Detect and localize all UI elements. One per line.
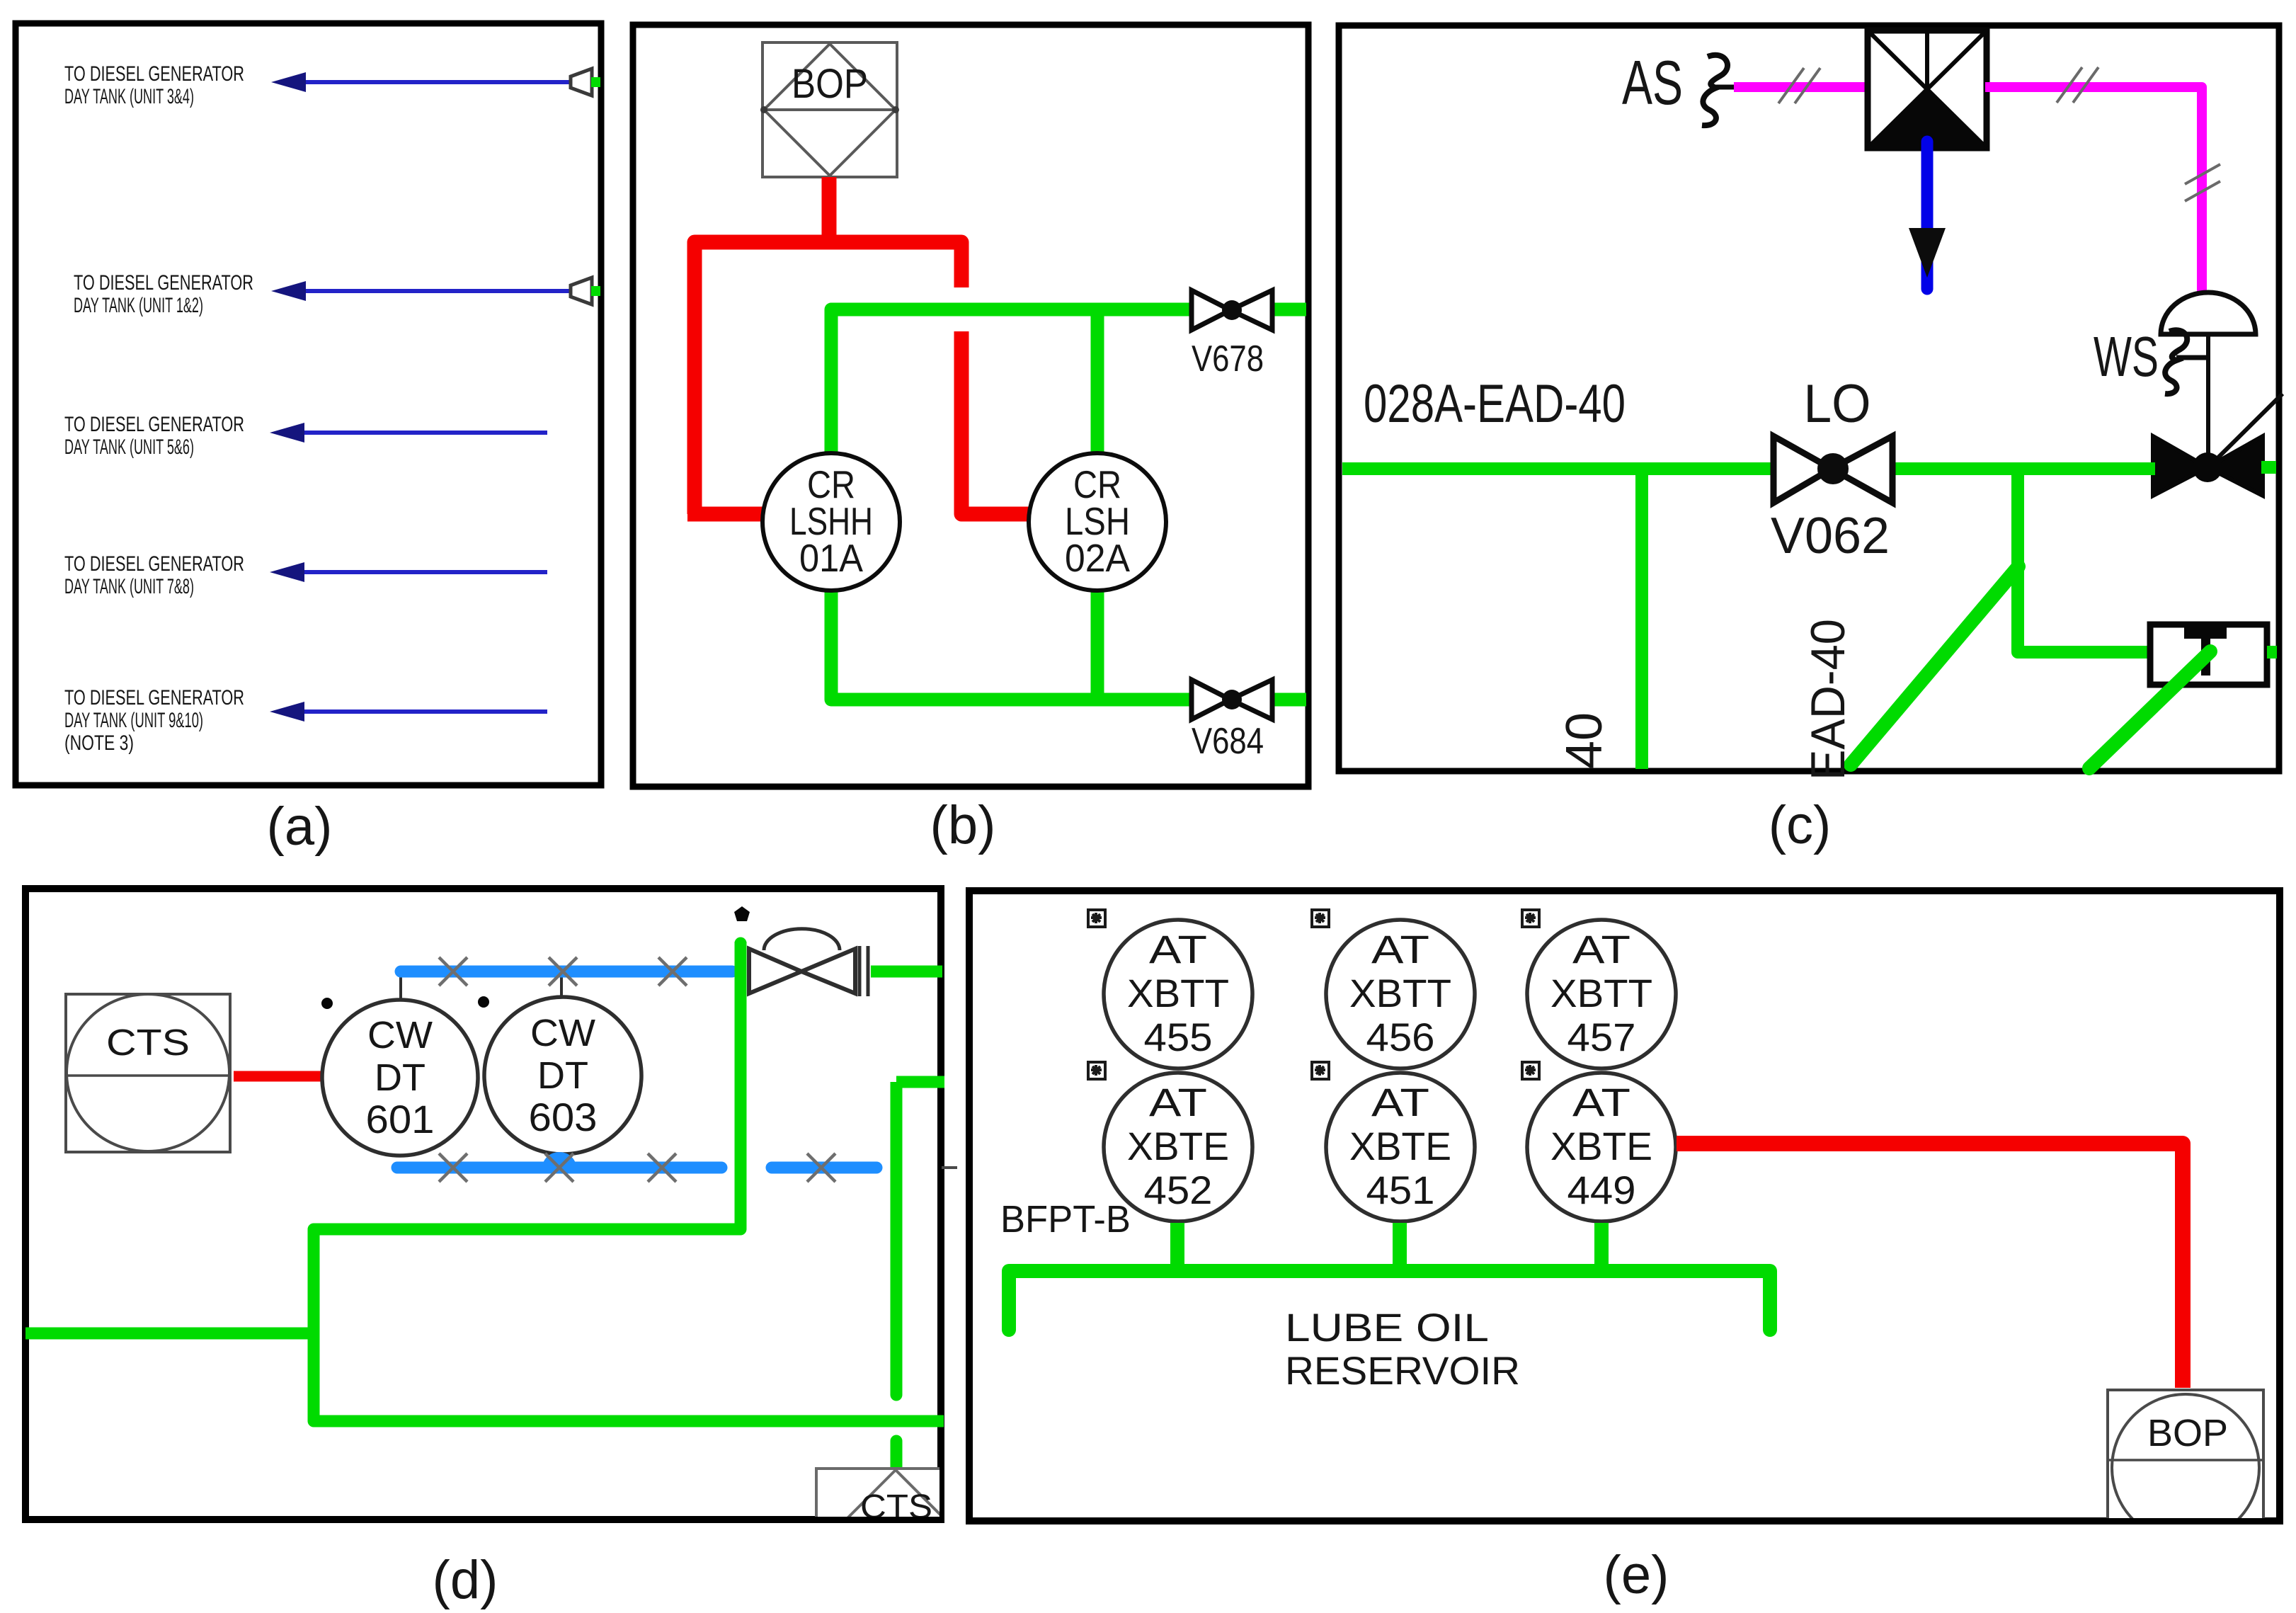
green diagonal line EAD-40 — [1851, 566, 2018, 765]
small CTS interface box (clipped at border) — [816, 1469, 975, 1613]
green process line between V062 and control valve — [1892, 462, 2155, 475]
pipe arrow to day tank unit 5&6 — [270, 423, 547, 443]
svg-text:XBTE: XBTE — [1127, 1124, 1229, 1168]
red signal wire to CR LSH 02A — [961, 331, 1035, 514]
star marker for AT XBTT 455 — [1088, 910, 1105, 927]
label: TO DIESEL GENERATOR DAY TANK (UNIT 1&2) — [74, 271, 253, 317]
dot marker near CW DT 601 — [321, 998, 333, 1009]
instrument AT XBTE 452 — [1104, 1073, 1252, 1221]
instrument CW DT 601 — [322, 1000, 478, 1156]
magenta pneumatic line AS to 3-way valve — [1734, 82, 1869, 92]
svg-text:AS: AS — [1622, 47, 1683, 118]
closed valve X marks on top header — [439, 957, 687, 986]
valve V678 — [1192, 290, 1272, 380]
instrument box with T — [2150, 625, 2267, 685]
svg-text:456: 456 — [1366, 1015, 1435, 1059]
instrument AT XBTT 457 — [1527, 920, 1676, 1068]
svg-text:DAY TANK (UNIT 3&4): DAY TANK (UNIT 3&4) — [64, 85, 194, 108]
svg-text:XBTE: XBTE — [1550, 1124, 1652, 1168]
svg-text:02A: 02A — [1065, 536, 1130, 580]
thin tap connector 601 to blue header — [399, 971, 402, 1001]
green stub from XBTE 451 — [1393, 1223, 1407, 1271]
green stub from XBTE 449 — [1594, 1223, 1609, 1271]
svg-text:BFPT-B: BFPT-B — [1000, 1198, 1131, 1241]
pipe arrow to day tank unit 9&10 — [270, 702, 547, 722]
control valve with bonnet (top right) — [749, 929, 868, 996]
red signal wire CTS to CW DT 601 — [234, 1071, 322, 1082]
svg-text:V678: V678 — [1192, 338, 1264, 380]
red signal wire to CR LSHH 01A — [695, 242, 961, 514]
svg-text:DAY TANK (UNIT 1&2): DAY TANK (UNIT 1&2) — [74, 294, 203, 317]
panel (b) border frame — [633, 25, 1308, 787]
green valve outlet to border — [871, 966, 942, 978]
svg-text:(c): (c) — [1769, 795, 1832, 855]
panel (c) border frame — [1339, 25, 2279, 771]
panel (a) border frame — [16, 23, 601, 785]
svg-text:451: 451 — [1366, 1168, 1435, 1212]
thin stub at border right of blue segment — [942, 1166, 957, 1169]
green stub to small CTS box — [891, 1441, 903, 1476]
blue line separate segment — [772, 1162, 876, 1174]
blue line bottom header — [397, 1162, 721, 1174]
label: TO DIESEL GENERATOR DAY TANK (UNIT 3&4) — [64, 62, 244, 108]
WS short tick — [2176, 355, 2208, 360]
svg-text:TO DIESEL GENERATOR: TO DIESEL GENERATOR — [64, 62, 244, 86]
pipe arrow to day tank unit 1&2 — [271, 281, 571, 301]
svg-text:DAY TANK (UNIT 7&8): DAY TANK (UNIT 7&8) — [64, 575, 194, 598]
green branch drop line — [1635, 469, 1648, 769]
closed valve X marks on bottom header — [439, 1153, 676, 1182]
svg-text:(d): (d) — [433, 1550, 498, 1610]
svg-text:603: 603 — [529, 1095, 598, 1139]
svg-text:TO DIESEL GENERATOR: TO DIESEL GENERATOR — [64, 686, 244, 709]
BOP interface box — [2108, 1390, 2263, 1546]
AS break squiggle — [1702, 55, 1727, 125]
funnel fitting on line unit 1&2 — [571, 278, 600, 304]
dot marker near CW DT 603 — [478, 996, 489, 1008]
svg-text:XBTT: XBTT — [1349, 971, 1451, 1015]
star marker for AT XBTE 449 — [1522, 1062, 1539, 1079]
green stub control valve to border — [2261, 461, 2276, 474]
svg-text:01A: 01A — [799, 536, 863, 580]
svg-text:BOP: BOP — [2147, 1412, 2228, 1454]
svg-text:DAY TANK (UNIT 9&10): DAY TANK (UNIT 9&10) — [64, 709, 203, 732]
green wire stub V684 to border — [1271, 693, 1306, 707]
funnel fitting on line unit 3&4 — [571, 69, 600, 96]
svg-text:WS: WS — [2094, 325, 2159, 388]
hash marks on magenta line left — [1778, 68, 1820, 103]
svg-text:028A-EAD-40: 028A-EAD-40 — [1364, 374, 1626, 434]
instrument CR LSH 02A — [1029, 453, 1166, 591]
green wire bottom run to valve V684 — [831, 588, 1192, 700]
label: TO DIESEL GENERATOR DAY TANK (UNIT 5&6) — [64, 413, 244, 459]
valve V062 — [1771, 436, 1892, 564]
svg-text:V062: V062 — [1771, 508, 1890, 564]
instrument AT XBTT 456 — [1326, 920, 1475, 1068]
green stub instrument box to border — [2267, 646, 2277, 659]
svg-text:XBTT: XBTT — [1127, 971, 1229, 1015]
blue flow bump under 603 — [542, 1152, 576, 1168]
green line from left border — [25, 1328, 314, 1340]
svg-text:CTS: CTS — [106, 1022, 190, 1064]
svg-text:XBTE: XBTE — [1349, 1124, 1451, 1168]
svg-text:(NOTE 3): (NOTE 3) — [64, 731, 134, 755]
pipe arrow to day tank unit 3&4 — [271, 72, 571, 92]
green branch to instrument box — [2018, 469, 2152, 652]
star marker for AT XBTT 457 — [1522, 910, 1539, 927]
green wire stub V678 to border — [1271, 303, 1306, 317]
star marker for AT XBTE 452 — [1088, 1062, 1105, 1079]
panel (e) border frame — [969, 891, 2280, 1521]
control valve (black bowtie) — [2153, 436, 2263, 496]
hash marks on magenta vertical — [2185, 164, 2220, 201]
svg-text:LO: LO — [1804, 374, 1871, 434]
svg-text:DAY TANK (UNIT 5&6): DAY TANK (UNIT 5&6) — [64, 435, 194, 459]
green wire top run to valve V678 — [831, 309, 1192, 457]
thin tap connector 603 to blue header — [560, 971, 563, 998]
instrument AT XBTE 451 — [1326, 1073, 1475, 1221]
svg-text:AT: AT — [1371, 927, 1429, 971]
svg-text:DT: DT — [375, 1056, 425, 1099]
label LUBE OIL RESERVOIR — [1285, 1305, 1520, 1393]
svg-text:RESERVOIR: RESERVOIR — [1285, 1348, 1520, 1393]
svg-text:452: 452 — [1144, 1168, 1213, 1212]
svg-text:V684: V684 — [1192, 721, 1264, 762]
svg-text:TO DIESEL GENERATOR: TO DIESEL GENERATOR — [64, 552, 244, 576]
svg-text:(e): (e) — [1604, 1545, 1669, 1605]
AS short tick — [1716, 85, 1736, 90]
actuator arm diagonal — [2208, 394, 2283, 467]
star marker for AT XBTE 451 — [1312, 1062, 1329, 1079]
closed valve X mark on segment — [807, 1153, 835, 1182]
green process line main run — [1342, 462, 1774, 475]
svg-text:TO DIESEL GENERATOR: TO DIESEL GENERATOR — [64, 413, 244, 436]
WS actuator diaphragm dome — [2161, 292, 2256, 334]
green L-line from border — [896, 1076, 944, 1088]
actuator stem — [2206, 334, 2210, 467]
svg-text:(b): (b) — [930, 795, 996, 855]
svg-text:AT: AT — [1572, 1080, 1630, 1124]
svg-text:XBTT: XBTT — [1550, 971, 1652, 1015]
label: TO DIESEL GENERATOR DAY TANK (UNIT 9&10) (NOTE 3) — [64, 686, 244, 755]
svg-text:457: 457 — [1567, 1015, 1636, 1059]
svg-text:AT: AT — [1149, 1080, 1207, 1124]
svg-text:DT: DT — [537, 1054, 588, 1097]
svg-text:AT: AT — [1149, 927, 1207, 971]
svg-text:EAD-40: EAD-40 — [1801, 619, 1855, 780]
blue line top header — [401, 966, 732, 978]
svg-text:CW: CW — [530, 1012, 595, 1054]
green wire branch to CR LSH 02A top — [1091, 309, 1104, 457]
CTS interface box — [66, 994, 230, 1152]
red wire stub into CR LSHH 01A — [687, 507, 768, 522]
svg-text:BOP: BOP — [792, 61, 868, 107]
green diagonal into instrument box — [2089, 651, 2210, 768]
BOP logic box — [760, 42, 899, 177]
magenta pneumatic line valve to WS actuator — [1985, 87, 2202, 300]
svg-text:(a): (a) — [267, 797, 333, 857]
svg-text:449: 449 — [1567, 1168, 1636, 1212]
green stub from XBTE 452 — [1170, 1223, 1184, 1271]
3-way solenoid valve body — [1868, 30, 1987, 148]
pipe arrow to day tank unit 7&8 — [270, 562, 547, 582]
instrument AT XBTT 455 — [1104, 920, 1252, 1068]
star marker above valve — [734, 906, 750, 921]
red signal wire XBTE 449 to BOP — [1677, 1144, 2183, 1388]
green wire branch CR LSH 02A bottom — [1091, 588, 1104, 700]
svg-text:CW: CW — [367, 1014, 433, 1056]
svg-text:601: 601 — [366, 1097, 435, 1141]
instrument CW DT 603 — [484, 997, 641, 1154]
blue vent arrow from valve — [1909, 142, 1946, 289]
green riser to control valve — [314, 942, 944, 1421]
green manifold lube oil reservoir — [1009, 1271, 1770, 1330]
WS break squiggle — [2165, 330, 2187, 394]
instrument AT XBTE 449 — [1527, 1073, 1676, 1221]
star marker for AT XBTT 456 — [1312, 910, 1329, 927]
svg-text:455: 455 — [1144, 1015, 1213, 1059]
hash marks on magenta line right — [2057, 67, 2098, 103]
svg-text:40: 40 — [1556, 712, 1613, 769]
svg-text:AT: AT — [1371, 1080, 1429, 1124]
svg-text:AT: AT — [1572, 927, 1630, 971]
panel (d) border frame — [25, 889, 941, 1520]
valve V684 — [1192, 680, 1272, 762]
label: TO DIESEL GENERATOR DAY TANK (UNIT 7&8) — [64, 552, 244, 598]
svg-text:TO DIESEL GENERATOR: TO DIESEL GENERATOR — [74, 271, 253, 295]
instrument CR LSHH 01A — [763, 453, 900, 591]
svg-text:LUBE OIL: LUBE OIL — [1285, 1305, 1489, 1350]
red signal wire from BOP — [822, 177, 837, 249]
